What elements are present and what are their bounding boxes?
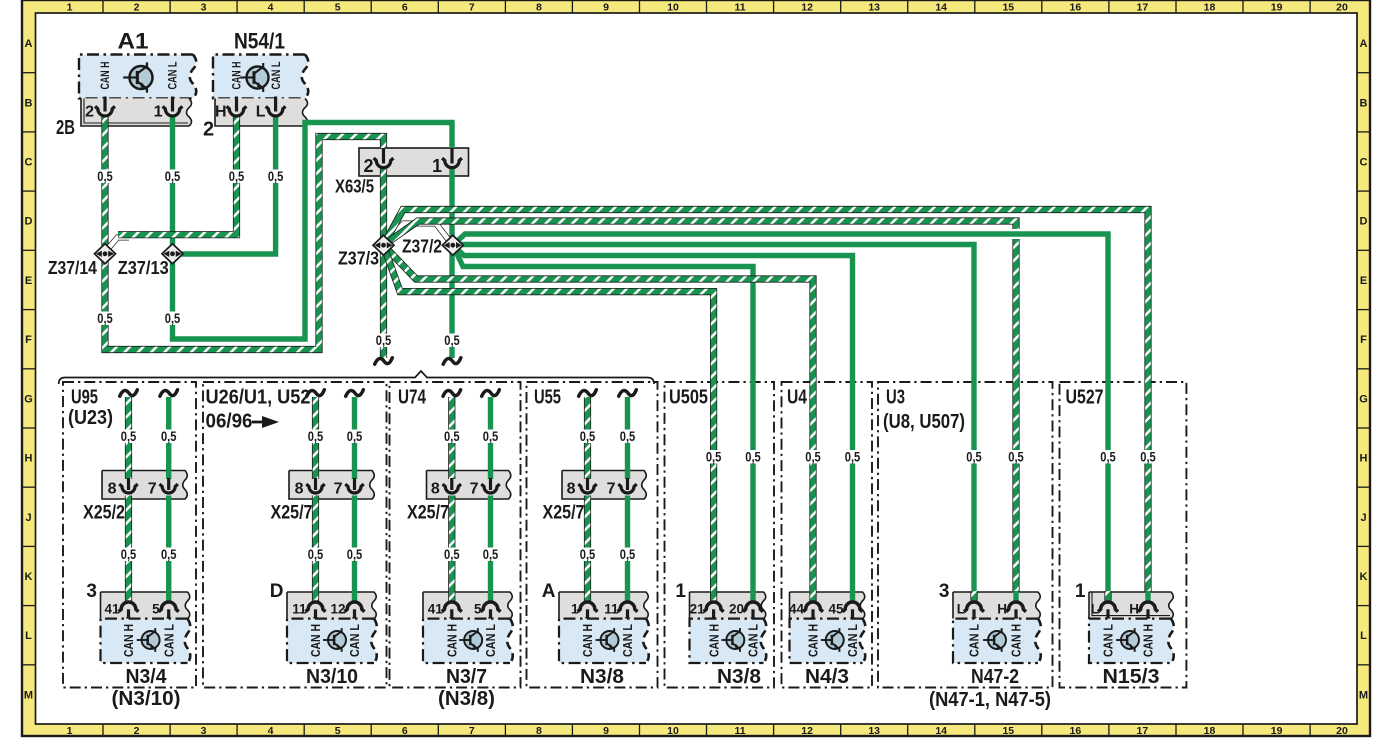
svg-text:Z37/3: Z37/3 — [338, 248, 379, 269]
svg-text:CAN H: CAN H — [1009, 624, 1024, 657]
svg-text:0,5: 0,5 — [1140, 449, 1156, 465]
bottom connector of U3 — [939, 581, 1040, 622]
A1 pin 1 socket — [163, 97, 183, 117]
wire gauge labels U527 — [1099, 449, 1157, 465]
svg-text:7: 7 — [607, 481, 616, 498]
svg-text:0,5: 0,5 — [620, 546, 636, 562]
wire end hook U95 CAN H — [120, 390, 138, 396]
svg-text:X25/7: X25/7 — [543, 503, 585, 524]
X25/7 pin sockets — [295, 478, 364, 498]
svg-text:X25/7: X25/7 — [271, 503, 313, 524]
wire: X63/5 pin2 striped down through Z37/3 to bundle end — [380, 169, 387, 358]
svg-text:0,5: 0,5 — [444, 332, 460, 348]
svg-text:U95: U95 — [71, 387, 98, 409]
brace grouping left modules — [59, 371, 654, 384]
wire: solid CAN L from Z37/2 to U4 connector — [453, 245, 853, 601]
svg-text:N47-2: N47-2 — [971, 666, 1019, 688]
svg-text:0,5: 0,5 — [97, 168, 113, 184]
svg-text:C: C — [1360, 157, 1368, 169]
svg-text:0,5: 0,5 — [121, 428, 137, 444]
svg-text:0,5: 0,5 — [347, 428, 363, 444]
control unit N54/1 (blue component box) — [213, 29, 308, 99]
wire U95 CAN H striped — [125, 397, 132, 601]
wire gauge labels top section — [96, 168, 461, 348]
svg-text:15: 15 — [1002, 2, 1014, 14]
svg-text:20: 20 — [1336, 2, 1348, 14]
svg-text:5: 5 — [474, 602, 482, 617]
svg-text:17: 17 — [1137, 2, 1149, 14]
N54/1 pin H socket — [227, 97, 247, 117]
svg-text:A: A — [1360, 38, 1368, 50]
X63/5 pin 1 socket — [442, 148, 462, 168]
svg-text:45: 45 — [828, 602, 844, 617]
svg-text:A: A — [542, 581, 556, 602]
svg-text:0,5: 0,5 — [161, 428, 177, 444]
wire gauge labels U3 — [965, 449, 1025, 465]
svg-text:0,5: 0,5 — [805, 449, 821, 465]
wire gauge labels U26/U1, U52 — [307, 428, 364, 562]
svg-text:15: 15 — [1002, 725, 1014, 737]
wire end hook U55 CAN H — [579, 390, 597, 396]
module box U95 outline — [63, 382, 196, 688]
svg-text:0,5: 0,5 — [229, 168, 245, 184]
bottom connector of U95 — [86, 581, 189, 622]
wire: A1 pin2 CAN H striped loop to X63/5 pin2 — [105, 116, 384, 350]
wire: striped CAN H from Z37/3 to U527 connector — [384, 210, 1149, 602]
svg-text:7: 7 — [470, 481, 479, 498]
splice node Z37/3 — [338, 235, 394, 268]
wire U55 CAN L solid — [625, 397, 630, 601]
svg-text:0,5: 0,5 — [444, 428, 460, 444]
svg-text:CAN H: CAN H — [121, 624, 136, 657]
svg-text:0,5: 0,5 — [1100, 449, 1116, 465]
svg-text:L: L — [1360, 630, 1367, 642]
svg-text:CAN H: CAN H — [806, 624, 821, 657]
wire end hook U26/U1, U52 CAN H — [307, 390, 325, 396]
svg-text:1: 1 — [67, 2, 73, 14]
svg-text:CAN L: CAN L — [845, 624, 860, 657]
CAN transceiver box of U505 — [690, 619, 767, 663]
wire gauge labels U74 — [443, 428, 500, 562]
connector X25/7 of U26/U1, U52 — [271, 471, 375, 524]
svg-text:K: K — [1360, 571, 1368, 583]
wire gauge labels U505 — [705, 449, 762, 465]
wire: solid CAN L from Z37/2 to U3 connector (straight) — [453, 245, 974, 602]
A1 CAN H label — [100, 62, 112, 90]
svg-text:18: 18 — [1204, 2, 1216, 14]
svg-text:H: H — [997, 602, 1007, 617]
svg-text:0,5: 0,5 — [483, 546, 499, 562]
svg-text:8: 8 — [431, 481, 440, 498]
svg-text:0,5: 0,5 — [1008, 449, 1024, 465]
svg-text:7: 7 — [469, 2, 475, 14]
svg-text:CAN L: CAN L — [620, 624, 635, 657]
svg-text:E: E — [25, 275, 32, 287]
svg-text:E: E — [1360, 275, 1367, 287]
svg-text:3: 3 — [939, 581, 950, 602]
module box U3 outline — [878, 382, 1053, 688]
svg-text:2B: 2B — [56, 117, 75, 139]
svg-text:N3/8: N3/8 — [580, 666, 624, 688]
module box U4 outline — [782, 382, 873, 688]
N54/1 CAN L label — [271, 62, 283, 90]
splice node Z37/13 — [118, 244, 183, 278]
wire gauge labels U55 — [579, 428, 637, 562]
svg-text:6: 6 — [402, 2, 408, 14]
svg-text:21: 21 — [690, 602, 706, 617]
svg-text:6: 6 — [402, 725, 408, 737]
module U527 labels — [1066, 387, 1104, 409]
svg-text:1: 1 — [571, 602, 579, 617]
svg-text:D: D — [1360, 216, 1368, 228]
svg-text:18: 18 — [1204, 725, 1216, 737]
svg-text:14: 14 — [935, 2, 947, 14]
svg-text:0,5: 0,5 — [483, 428, 499, 444]
svg-text:CAN L: CAN L — [347, 624, 362, 657]
svg-text:2: 2 — [134, 2, 140, 14]
svg-text:0,5: 0,5 — [444, 546, 460, 562]
CAN transceiver box of U527 — [1089, 619, 1174, 663]
svg-text:CAN H: CAN H — [308, 624, 323, 657]
svg-text:44: 44 — [789, 602, 805, 617]
wire: striped CAN H from Z37/3 to U3 connector — [384, 221, 1017, 601]
svg-text:CAN L: CAN L — [168, 62, 180, 90]
svg-text:CAN L: CAN L — [746, 624, 761, 657]
svg-text:11: 11 — [292, 602, 307, 617]
wire: X63/5 pin1 solid down through Z37/2 to bundle end — [449, 169, 454, 358]
wire end hook U74 CAN H — [443, 390, 461, 396]
svg-text:0,5: 0,5 — [845, 449, 861, 465]
svg-text:CAN L: CAN L — [1101, 624, 1116, 657]
wire end hook U95 CAN L — [160, 390, 178, 396]
splice node Z37/14 — [48, 244, 116, 278]
svg-text:Z37/13: Z37/13 — [118, 257, 169, 278]
svg-text:Z37/2: Z37/2 — [402, 236, 442, 257]
wire U26/U1, U52 CAN L solid — [352, 397, 357, 601]
component name under U95 — [112, 666, 181, 710]
svg-text:2: 2 — [203, 119, 214, 141]
wire end hook U74 CAN L — [482, 390, 500, 396]
svg-text:1: 1 — [67, 725, 73, 737]
module box U26 outline — [203, 382, 387, 688]
A1 connector strip 2B — [56, 98, 192, 139]
svg-text:0,5: 0,5 — [165, 310, 181, 326]
svg-text:L: L — [1091, 602, 1099, 617]
svg-text:4: 4 — [268, 725, 274, 737]
X25/2 pin sockets — [108, 478, 178, 498]
svg-text:0,5: 0,5 — [620, 428, 636, 444]
module U4 labels — [787, 387, 808, 409]
wire: solid CAN L from Z37/2 to U505 connector — [453, 245, 753, 601]
svg-text:F: F — [25, 334, 32, 346]
svg-text:7: 7 — [148, 481, 157, 498]
wire U74 CAN L solid — [488, 397, 493, 601]
svg-text:N3/10: N3/10 — [306, 666, 358, 688]
svg-text:0,5: 0,5 — [308, 546, 324, 562]
svg-text:U74: U74 — [398, 387, 427, 409]
component name under U74 — [438, 666, 495, 710]
svg-text:N3/7: N3/7 — [446, 666, 487, 688]
module U55 labels — [534, 387, 561, 409]
bottom connector of U55 — [542, 581, 648, 622]
svg-text:D: D — [25, 216, 33, 228]
svg-text:B: B — [1360, 97, 1368, 109]
svg-text:1: 1 — [1075, 581, 1086, 602]
svg-text:CAN H: CAN H — [580, 624, 595, 657]
svg-text:7: 7 — [469, 725, 475, 737]
white wire linking Z37/3 and Z37/2 — [385, 224, 451, 244]
svg-text:(N3/8): (N3/8) — [438, 688, 495, 710]
X25/7 pin sockets — [567, 478, 637, 498]
module U95 labels — [68, 387, 113, 430]
svg-text:0,5: 0,5 — [97, 310, 113, 326]
svg-text:N15/3: N15/3 — [1103, 666, 1160, 688]
svg-text:41: 41 — [104, 602, 120, 617]
svg-text:3: 3 — [201, 2, 207, 14]
svg-text:G: G — [24, 393, 33, 405]
svg-text:J: J — [1360, 512, 1366, 524]
wire U55 CAN H striped — [584, 397, 591, 601]
svg-text:06/96: 06/96 — [206, 411, 253, 433]
svg-text:12: 12 — [330, 602, 345, 617]
svg-text:CAN L: CAN L — [271, 62, 283, 90]
svg-text:CAN L: CAN L — [161, 624, 176, 657]
module U26/U1, U52 labels — [206, 387, 311, 433]
svg-text:5: 5 — [152, 602, 160, 617]
bottom connector of U26/U1, U52 — [270, 581, 376, 622]
connector X63/5 — [335, 148, 469, 197]
wire: striped CAN H from Z37/3 to U505 connector — [384, 245, 714, 601]
svg-text:0,5: 0,5 — [268, 168, 284, 184]
svg-text:N3/8: N3/8 — [717, 666, 761, 688]
transistor symbol inside N54/1 — [241, 63, 269, 92]
svg-text:2: 2 — [85, 104, 94, 121]
bottom connector of U4 — [789, 591, 865, 622]
white wire stub at Z37/14 — [106, 238, 130, 252]
svg-text:CAN H: CAN H — [706, 624, 721, 657]
wire: N54/1 pin H striped to Z37/14 — [118, 116, 237, 235]
svg-text:11: 11 — [735, 2, 746, 14]
svg-text:0,5: 0,5 — [376, 332, 392, 348]
X63/5 pin 2 socket — [374, 148, 394, 168]
svg-text:0,5: 0,5 — [580, 428, 596, 444]
wire gauge labels U95 — [120, 428, 178, 562]
svg-text:CAN H: CAN H — [232, 62, 244, 90]
wire: solid CAN L from Z37/2 to U527 connector — [453, 234, 1108, 598]
svg-text:M: M — [24, 689, 33, 701]
wire: A1 pin1 CAN L solid loop to X63/5 pin1 — [173, 116, 453, 339]
module box U527 outline — [1060, 382, 1187, 688]
svg-text:B: B — [25, 97, 33, 109]
svg-text:A: A — [25, 38, 33, 50]
svg-text:0,5: 0,5 — [308, 428, 324, 444]
svg-text:H: H — [25, 453, 33, 465]
component name under U4 — [805, 666, 849, 688]
svg-text:CAN L: CAN L — [483, 624, 498, 657]
N54/1 pin L socket — [266, 97, 286, 117]
svg-text:K: K — [25, 571, 33, 583]
svg-text:5: 5 — [335, 725, 341, 737]
svg-text:0,5: 0,5 — [580, 546, 596, 562]
svg-text:13: 13 — [868, 2, 880, 14]
wire end hook U55 CAN L — [619, 390, 637, 396]
svg-text:13: 13 — [868, 725, 880, 737]
wire: N54/1 pin L solid to Z37/13 — [180, 116, 276, 254]
svg-text:M: M — [1359, 689, 1368, 701]
svg-text:16: 16 — [1070, 725, 1082, 737]
svg-text:CAN H: CAN H — [100, 62, 112, 90]
svg-text:CAN H: CAN H — [1141, 624, 1156, 657]
wire U95 CAN L solid — [166, 397, 171, 601]
svg-text:4: 4 — [268, 2, 274, 14]
module box U55 outline — [527, 382, 658, 688]
svg-text:(U8, U507): (U8, U507) — [883, 411, 965, 433]
A1 CAN L label — [168, 62, 180, 90]
connector X25/7 of U74 — [407, 471, 511, 524]
svg-text:N3/4: N3/4 — [126, 666, 168, 688]
A1 pin 2 socket — [95, 97, 115, 117]
svg-text:10: 10 — [667, 725, 679, 737]
CAN transceiver box of U3 — [953, 619, 1041, 663]
svg-text:16: 16 — [1070, 2, 1082, 14]
wire end hook (left bundle) — [375, 358, 393, 364]
svg-text:N4/3: N4/3 — [805, 666, 849, 688]
svg-text:U4: U4 — [787, 387, 808, 409]
wire: striped CAN H from Z37/3 to U4 connector — [384, 245, 814, 601]
X25/7 pin sockets — [431, 478, 500, 498]
svg-text:12: 12 — [801, 725, 813, 737]
bottom connector of U505 — [675, 581, 765, 622]
module U3 labels — [883, 387, 965, 434]
svg-text:0,5: 0,5 — [161, 546, 177, 562]
svg-text:CAN L: CAN L — [967, 624, 982, 657]
svg-text:7: 7 — [334, 481, 343, 498]
svg-text:0,5: 0,5 — [966, 449, 982, 465]
splice node Z37/2 — [402, 235, 463, 256]
svg-text:19: 19 — [1271, 725, 1283, 737]
svg-text:1: 1 — [154, 104, 163, 121]
wire U26/U1, U52 CAN H striped — [312, 397, 319, 601]
svg-text:D: D — [270, 581, 284, 602]
svg-text:9: 9 — [603, 725, 609, 737]
svg-text:5: 5 — [335, 2, 341, 14]
svg-text:0,5: 0,5 — [121, 546, 137, 562]
svg-text:F: F — [1360, 334, 1367, 346]
N54/1 connector strip 2 — [203, 98, 308, 140]
svg-text:CAN H: CAN H — [445, 624, 460, 657]
svg-text:11: 11 — [604, 602, 619, 617]
module U74 labels — [398, 387, 427, 409]
CAN transceiver box of U74 — [423, 619, 513, 663]
svg-text:1: 1 — [432, 156, 442, 176]
svg-text:8: 8 — [295, 481, 304, 498]
CAN transceiver box of U95 — [101, 619, 191, 663]
svg-text:41: 41 — [428, 602, 444, 617]
N54/1 CAN H label — [232, 62, 244, 90]
component name under U505 — [717, 666, 761, 688]
component name under U55 — [580, 666, 624, 688]
svg-text:19: 19 — [1271, 2, 1283, 14]
svg-text:8: 8 — [567, 481, 576, 498]
svg-text:2: 2 — [134, 725, 140, 737]
svg-text:G: G — [1359, 393, 1368, 405]
bottom connector of U74 — [423, 591, 512, 622]
svg-text:U55: U55 — [534, 387, 561, 409]
svg-text:3: 3 — [86, 581, 97, 602]
crossing gap — [1010, 229, 1023, 239]
svg-text:C: C — [25, 157, 33, 169]
svg-text:(N47-1, N47-5): (N47-1, N47-5) — [929, 689, 1051, 711]
svg-text:8: 8 — [536, 2, 542, 14]
component name under U527 — [1103, 666, 1160, 688]
svg-text:X25/7: X25/7 — [407, 503, 449, 524]
svg-text:17: 17 — [1137, 725, 1149, 737]
component name under U3 — [929, 666, 1051, 711]
wire end hook (right bundle) — [443, 358, 461, 364]
svg-text:1: 1 — [675, 581, 686, 602]
svg-text:11: 11 — [735, 725, 746, 737]
bottom connector of U527 — [1075, 581, 1173, 622]
svg-text:14: 14 — [935, 725, 947, 737]
svg-text:12: 12 — [801, 2, 813, 14]
svg-text:N54/1: N54/1 — [234, 29, 285, 54]
CAN transceiver box of U4 — [790, 619, 866, 663]
transistor symbol inside A1 — [123, 62, 152, 92]
svg-text:10: 10 — [667, 2, 679, 14]
svg-text:0,5: 0,5 — [347, 546, 363, 562]
svg-text:U527: U527 — [1066, 387, 1104, 409]
svg-text:0,5: 0,5 — [165, 168, 181, 184]
wire gauge labels U4 — [804, 449, 862, 465]
svg-text:H: H — [215, 104, 227, 121]
svg-text:X25/2: X25/2 — [83, 503, 125, 524]
component name under U26/U1, U52 — [306, 666, 358, 688]
svg-text:8: 8 — [536, 725, 542, 737]
svg-text:0,5: 0,5 — [706, 449, 722, 465]
connector X25/2 of U95 — [83, 471, 187, 524]
svg-text:L: L — [25, 630, 32, 642]
CAN transceiver box of U26/U1, U52 — [287, 619, 377, 663]
svg-text:2: 2 — [363, 156, 373, 176]
control unit A1 (blue component box) — [79, 29, 196, 99]
module box U74 outline — [390, 382, 521, 688]
svg-text:U505: U505 — [669, 387, 708, 409]
module U505 labels — [669, 387, 708, 409]
wire U74 CAN H striped — [448, 397, 455, 601]
svg-text:U26/U1, U52: U26/U1, U52 — [206, 387, 311, 409]
svg-text:A1: A1 — [118, 29, 149, 54]
svg-text:J: J — [25, 512, 31, 524]
svg-text:9: 9 — [603, 2, 609, 14]
svg-text:H: H — [1129, 602, 1139, 617]
svg-text:X63/5: X63/5 — [335, 176, 374, 197]
svg-text:0,5: 0,5 — [745, 449, 761, 465]
wire end hook U26/U1, U52 CAN L — [346, 390, 364, 396]
connector X25/7 of U55 — [543, 471, 647, 524]
svg-text:(U23): (U23) — [68, 407, 113, 429]
svg-text:20: 20 — [1336, 725, 1348, 737]
svg-text:3: 3 — [201, 725, 207, 737]
svg-text:Z37/14: Z37/14 — [48, 257, 98, 278]
module box U505 outline — [665, 382, 775, 688]
svg-text:8: 8 — [108, 481, 117, 498]
CAN transceiver box of U55 — [559, 619, 649, 663]
svg-text:L: L — [957, 602, 965, 617]
svg-text:U3: U3 — [886, 387, 905, 409]
svg-text:H: H — [1360, 453, 1368, 465]
svg-text:20: 20 — [729, 602, 744, 617]
svg-text:L: L — [256, 104, 266, 121]
